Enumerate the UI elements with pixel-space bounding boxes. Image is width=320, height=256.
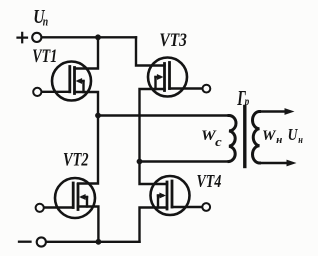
svg-text:п: п [43,13,48,28]
wire VT1 source to node A [75,92,99,116]
wire VT2 drain riser [78,116,98,184]
transformer primary winding Wc [229,116,236,162]
label Un (output voltage) [288,125,303,146]
svg-text:н: н [276,134,282,146]
label Un (supply voltage) [33,7,48,29]
transistor VT2 [44,178,95,218]
terminal - (supply minus) [37,237,46,246]
wire VT1 drain riser [75,37,99,68]
svg-text:р: р [244,96,250,108]
terminal VT1 gate [33,88,41,96]
transistor VT4 [151,176,203,215]
node junction top rail / VT1 drain [95,34,101,40]
svg-text:н: н [298,134,303,146]
plus sign [18,33,28,42]
wire top rail from + terminal to right corner [42,36,137,38]
terminal VT3 gate [203,85,211,93]
svg-text:U: U [288,125,299,144]
wire VT4 source to bottom rail [140,208,168,242]
wire node B to primary bottom [140,160,230,163]
svg-text:VT3: VT3 [159,30,187,51]
node B junction [137,159,143,165]
label Wc (primary winding) [201,128,222,149]
terminal VT2 gate [36,204,44,212]
wire VT3 drain riser [136,37,165,65]
label Tp (transformer) [237,86,250,110]
transformer secondary winding Wn [253,112,260,164]
transistor VT3 [148,58,203,97]
label Wn (secondary winding) [262,128,282,146]
svg-text:W: W [262,128,277,144]
minus sign [19,241,31,243]
wire bottom rail [46,241,140,243]
transistor VT1 [42,62,92,101]
node junction bottom rail / VT2 source [96,239,102,245]
terminal VT4 gate [202,203,210,211]
svg-text:VT1: VT1 [32,46,57,67]
svg-text:с: с [215,135,222,149]
wire VT2 source to bottom rail [78,207,98,242]
transformer core [243,107,246,167]
node A junction [95,113,101,119]
wire VT3 source down to node B [140,89,165,162]
svg-text:VT4: VT4 [197,171,222,191]
wire secondary bottom output with arrow [260,162,289,165]
wire VT4 drain riser [140,162,168,185]
wire node A to primary top [98,114,229,117]
terminal + (supply plus) [32,33,41,42]
svg-text:VT2: VT2 [63,151,89,171]
wire secondary top output with arrow [260,110,287,113]
